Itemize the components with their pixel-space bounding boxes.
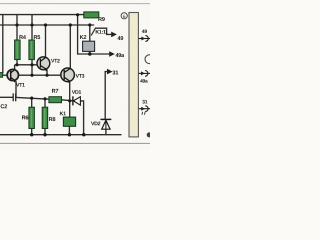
wire VT1 collector lead [14, 65, 16, 70]
junction rail2-R5 [30, 23, 33, 26]
junction base rail-link [30, 74, 33, 77]
junction collector rail-R5 [30, 63, 33, 66]
wire top bus [0, 14, 84, 16]
wire VT2 collector [45, 25, 47, 58]
label VT2 [51, 59, 60, 63]
wire second rail [0, 24, 94, 26]
top page border [0, 3, 150, 5]
connector strip [129, 13, 138, 137]
wire VD1 right corner down to ground [80, 101, 83, 135]
label VT3 [76, 74, 85, 78]
relay coil K1 [63, 117, 75, 126]
label 49 [118, 36, 124, 40]
label K2 [80, 35, 86, 39]
wire R4 branch [16, 15, 18, 41]
arrow to 49 [111, 32, 117, 38]
resistor R5 [29, 40, 35, 60]
resistor R6 [29, 107, 35, 128]
label 49a [116, 53, 125, 57]
wire R5 branch [31, 15, 33, 41]
transistor VT3 [61, 68, 75, 83]
node marker circled b [121, 13, 127, 19]
label R7 [52, 89, 58, 93]
wire ground rail [0, 134, 122, 136]
pin 31 right [139, 106, 150, 112]
junction rail2-VT2 collector [44, 23, 47, 26]
pin 49 right [138, 36, 150, 42]
label R4 [19, 35, 26, 39]
wire VT3 emitter to K1 [69, 81, 71, 117]
wire R4 bottom lead [16, 59, 18, 65]
arrow to 31 [107, 69, 113, 75]
wire link R5 node down [31, 65, 33, 75]
resistor stub at left edge [0, 73, 3, 78]
junction emitter line-R6 [30, 97, 33, 100]
label VT1 [16, 83, 25, 87]
label VD2 [91, 122, 100, 126]
wire VT2 emitter drop [46, 70, 48, 76]
transistor VT2 [37, 57, 50, 72]
capacitor C2 [13, 93, 16, 101]
label 49a right edge [140, 79, 148, 83]
junction emitter line-R8 [43, 97, 46, 100]
junction collector rail-R4 [15, 63, 18, 66]
resistor R9 [84, 12, 99, 18]
contact K1:1 [91, 28, 96, 36]
stray mark right edge [142, 112, 145, 115]
wire K1 bottom lead [68, 126, 70, 134]
wire K2 bottom lead [89, 51, 91, 54]
label K1:1 [96, 30, 106, 34]
label C2 [1, 104, 8, 108]
junction bus-49a branch [76, 13, 79, 16]
junction ground-R8 [43, 133, 46, 136]
node marker circle right edge [145, 55, 154, 64]
junction ground-R6 [30, 133, 33, 136]
wire 31 branch with VD2 leads [105, 72, 109, 119]
arrow to 49a [109, 51, 115, 57]
pin 49a right [139, 71, 150, 77]
wire R5 bottom lead [31, 59, 33, 65]
junction rail2-R4 [15, 23, 18, 26]
wire bus drop to 49a line [78, 15, 111, 54]
diode VD1 [73, 96, 81, 105]
transistor VT1 [7, 69, 18, 82]
junction rail2-VT3 collector [69, 23, 72, 26]
wire emitter line C2 R7 VD1 [0, 96, 13, 98]
resistor R8 [42, 107, 48, 128]
bottom page border [0, 142, 150, 144]
wire R8 leads [44, 99, 46, 108]
junction rail2-K2 [88, 23, 91, 26]
junction ground-VD1 branch [82, 133, 85, 136]
wire K2 top lead [89, 25, 91, 41]
wire left vertical link [2, 15, 4, 74]
label R9 [98, 17, 104, 21]
wire R6 leads [31, 98, 33, 107]
resistor R4 [15, 40, 21, 60]
wire VT1 emitter [15, 81, 17, 97]
label 31 right edge [142, 100, 147, 104]
junction 49a line-K2 [88, 52, 91, 55]
label VD1 [72, 90, 81, 94]
junction ground-K1 [68, 133, 71, 136]
label K1 [60, 112, 66, 116]
mark bottom right [147, 132, 152, 137]
label 31 [113, 71, 119, 75]
label 49 right edge [142, 30, 147, 34]
junction emitter line-VT3 [68, 99, 71, 102]
label R6 [22, 116, 28, 120]
junction base rail-VT2 emitter [45, 74, 48, 77]
diode VD2 [100, 119, 111, 129]
label R5 [34, 35, 40, 39]
wire base rail to VT3 [3, 74, 64, 76]
resistor R7 [49, 97, 62, 103]
wire VT3 collector [69, 25, 71, 68]
relay coil K2 [83, 41, 95, 51]
wire K1:1 output to 49 [96, 28, 113, 34]
wire VT1 collector rail to VT2 base [15, 64, 41, 66]
label R8 [49, 117, 55, 121]
